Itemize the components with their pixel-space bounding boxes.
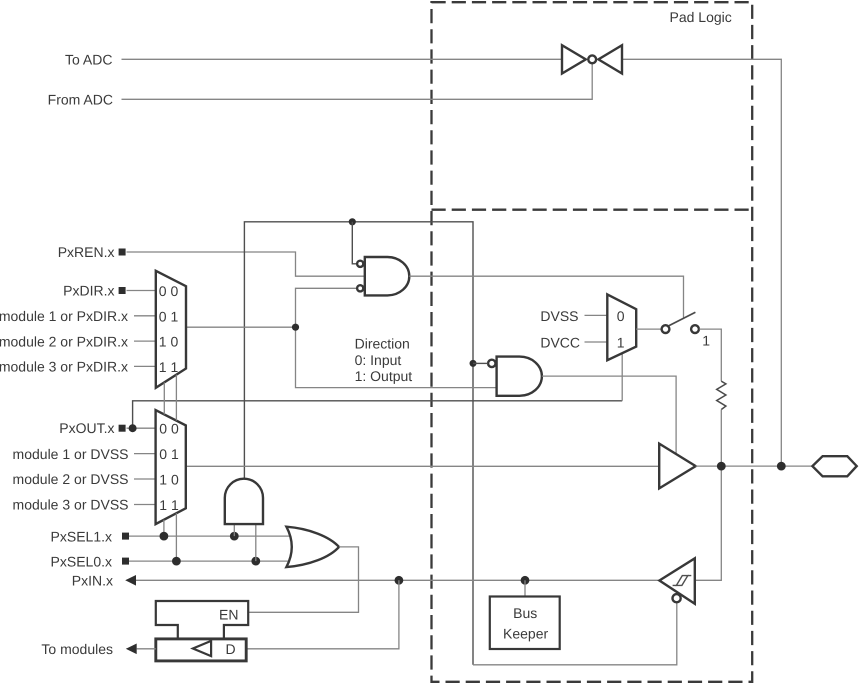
NAND U2 input bubble (488, 360, 495, 367)
wire module1 to mux M2 row 01 (134, 453, 156, 455)
node dot PxIN to bus keeper (521, 576, 530, 585)
svg-text:0: Input: 0: Input (355, 352, 402, 368)
node dots on PxSEL1 (160, 532, 169, 541)
analog switch U_ADC left triangle (562, 45, 586, 73)
wire PxDIR.x to mux M1 row 00 (127, 290, 156, 292)
svg-text:0 0: 0 0 (159, 421, 179, 437)
wire SEL-AND right input (255, 524, 257, 561)
terminal square PxSEL1.x (122, 533, 129, 540)
svg-text:Direction: Direction (355, 336, 410, 352)
mux M3 DVSS/DVCC body (607, 294, 636, 360)
wire mux M2 output to output driver (186, 465, 659, 467)
svg-text:1 1: 1 1 (159, 359, 179, 375)
mux M2 PxOUT body (156, 410, 186, 524)
node B dot at NAND input (470, 360, 477, 367)
svg-text:1: Output: 1: Output (355, 368, 413, 384)
wire DVSS to mux M3 (585, 314, 608, 316)
AND U1 top input bubble (357, 261, 363, 267)
wire select line S1 between mux M1 and mux M2 (163, 382, 165, 414)
switch SW1 right contact (691, 325, 699, 333)
wire From ADC (122, 64, 593, 100)
wire node B to NAND bubble (473, 362, 488, 364)
svg-text:PxDIR.x: PxDIR.x (63, 283, 114, 299)
wire PxREN.x to AND U1 middle input (127, 252, 365, 276)
mux M1 PxDIR body (156, 271, 186, 388)
wire PxSEL1.x (127, 535, 293, 537)
wire pad to ADC switch (622, 59, 781, 466)
terminal square PxSEL0.x (122, 558, 129, 565)
wire module1 to mux M1 row 01 (134, 315, 156, 317)
wire SEL-AND output rail to node B (244, 222, 473, 479)
wire select line S0 between mux M1 and mux M2 (175, 375, 177, 421)
D latch box (156, 639, 246, 661)
svg-text:module 3 or PxDIR.x: module 3 or PxDIR.x (0, 359, 128, 375)
OR gate U4 body (286, 527, 339, 567)
wire AND U1 output to switch control (409, 276, 683, 317)
outer dashed box Pad Logic (432, 2, 753, 682)
Schmitt enable bubble (673, 594, 681, 602)
svg-text:PxOUT.x: PxOUT.x (59, 420, 114, 436)
wire PxIN.x (136, 579, 660, 581)
svg-text:1 0: 1 0 (159, 334, 179, 350)
AND gate U1 body (365, 257, 409, 295)
AND U1 bottom input bubble (357, 285, 363, 291)
wire OR U4 output to EN (248, 547, 358, 612)
resistor R1 (717, 381, 726, 409)
wire To ADC (122, 58, 563, 60)
node dot pad line / ADC (777, 462, 786, 471)
wire DVCC to mux M3 (585, 341, 608, 343)
wire PxOUT branch to mux M3 select (133, 401, 623, 428)
node dot PxIN to D latch (395, 576, 404, 585)
inner dashed divider (432, 209, 753, 211)
Bus Keeper box (490, 597, 560, 650)
svg-text:To ADC: To ADC (65, 52, 112, 68)
wire Direction net from AND U1 bottom bubble to NAND U2 input (296, 288, 498, 387)
terminal square PxREN.x (119, 249, 126, 256)
wire mux M3 output to switch (636, 328, 661, 330)
svg-text:1: 1 (702, 333, 710, 349)
svg-text:DVCC: DVCC (540, 334, 580, 350)
svg-text:0 1: 0 1 (159, 446, 179, 462)
wire SEL-AND left input (233, 524, 235, 536)
wire module2 to mux M1 row 10 (134, 340, 156, 342)
svg-text:EN: EN (219, 607, 238, 623)
node A dot on top rail (349, 218, 356, 225)
wire node B feedback to Schmitt enable (472, 363, 474, 665)
pad hexagon (812, 456, 856, 476)
wire switch to resistor (699, 329, 721, 381)
svg-text:module 2 or DVSS: module 2 or DVSS (13, 471, 129, 487)
wire node A to AND U1 top bubble (352, 222, 357, 264)
wire module3 to mux M2 row 11 (134, 504, 156, 506)
svg-text:D: D (225, 641, 235, 657)
node C dot mux M1 output junction (292, 324, 299, 331)
wire mux M1 output (186, 326, 296, 328)
wire bus keeper tap (524, 580, 526, 596)
wire select line S0 from PxSEL0 to mux M2 (175, 513, 177, 561)
terminal square PxOUT.x (119, 425, 126, 432)
wire NAND output to driver enable (542, 376, 676, 454)
svg-text:PxREN.x: PxREN.x (58, 244, 115, 260)
wire module3 to mux M1 row 11 (134, 365, 156, 367)
svg-text:Bus: Bus (513, 605, 537, 621)
wire driver output to pad (696, 465, 813, 467)
svg-text:PxIN.x: PxIN.x (72, 573, 113, 589)
node dots on PxSEL0 (172, 557, 181, 566)
NAND gate U2 body (497, 357, 542, 396)
svg-text:module 2 or PxDIR.x: module 2 or PxDIR.x (0, 333, 128, 349)
svg-text:0: 0 (617, 308, 625, 324)
arrow PxIN.x (125, 575, 136, 586)
EN latch box (notched polygon with legs to D latch) (156, 601, 248, 639)
Schmitt hysteresis symbol (673, 576, 692, 586)
node dot pad line / resistor (717, 462, 726, 471)
svg-text:PxSEL1.x: PxSEL1.x (51, 529, 112, 545)
AND gate U3 (PxSEL and) body (225, 479, 263, 524)
arrow To modules (126, 644, 137, 655)
svg-text:1 1: 1 1 (159, 497, 179, 513)
svg-text:PxSEL0.x: PxSEL0.x (51, 554, 112, 570)
wire select line S1 from PxSEL1 to mux M2 (163, 520, 165, 536)
svg-text:0 0: 0 0 (159, 283, 179, 299)
svg-text:Keeper: Keeper (503, 626, 548, 642)
clock triangle in D latch (193, 641, 211, 656)
wire PxIN to D input (246, 580, 399, 649)
switch SW1 arm (669, 312, 696, 326)
svg-text:module 3 or DVSS: module 3 or DVSS (13, 497, 129, 513)
analog switch U_ADC right triangle (598, 45, 622, 73)
svg-text:1: 1 (617, 335, 625, 351)
svg-text:DVSS: DVSS (540, 308, 578, 324)
svg-text:To modules: To modules (41, 641, 113, 657)
wire To modules (137, 648, 156, 650)
svg-text:Pad Logic: Pad Logic (670, 9, 732, 25)
output driver U5 (659, 444, 696, 489)
wire PxOUT.x to mux M2 row 00 (127, 427, 156, 429)
wire PxSEL0.x (127, 560, 293, 562)
wire resistor to pad line and Schmitt input (695, 410, 722, 581)
node D dot PxOUT branch (129, 424, 137, 432)
Schmitt trigger U6 body (659, 558, 694, 604)
svg-text:From ADC: From ADC (48, 92, 113, 108)
wire module2 to mux M2 row 10 (134, 478, 156, 480)
svg-text:0 1: 0 1 (159, 308, 179, 324)
switch SW1 left contact (662, 325, 670, 333)
svg-text:module 1 or DVSS: module 1 or DVSS (13, 446, 129, 462)
analog switch U_ADC bubble (588, 55, 596, 63)
svg-text:module 1 or PxDIR.x: module 1 or PxDIR.x (0, 308, 128, 324)
svg-text:1 0: 1 0 (159, 472, 179, 488)
terminal square PxDIR.x (119, 287, 126, 294)
